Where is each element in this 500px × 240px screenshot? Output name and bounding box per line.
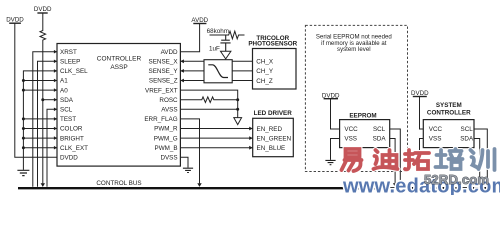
note text (316, 33, 392, 53)
wire XRST (33, 52, 57, 187)
junction TEST/ground rail (22, 117, 25, 120)
svg-text:CONTROLLER: CONTROLLER (97, 56, 142, 63)
svg-text:CH_Y: CH_Y (256, 68, 274, 75)
wire AVDD (180, 24, 199, 52)
svg-text:SCL: SCL (60, 107, 73, 114)
wire SYS VCC (420, 97, 424, 130)
system controller left pin labels (429, 126, 443, 143)
watermark glyph 2 (374, 150, 398, 169)
wire AVSS (180, 108, 237, 110)
system controller right pin labels (460, 126, 474, 143)
dashed option box (305, 25, 407, 171)
wire SCL (47, 109, 57, 187)
LED driver box (253, 118, 294, 156)
controller left pin labels (60, 49, 88, 162)
arrowhead BRIGHT pin (54, 136, 57, 140)
hollow arrow into filter (221, 51, 231, 59)
ground EEPROM (325, 160, 335, 164)
junction AVSS net (236, 108, 239, 111)
svg-text:SENSE_Y: SENSE_Y (149, 68, 179, 75)
arrowhead SYS SCL to bus (485, 183, 489, 187)
svg-text:SDA: SDA (373, 136, 387, 143)
wire EEPROM VCC (331, 99, 340, 129)
wire TEST (23, 118, 57, 120)
wire A1 (23, 80, 57, 82)
svg-text:68kohm: 68kohm (207, 28, 229, 35)
svg-text:ASSP: ASSP (110, 64, 127, 71)
svg-text:DVDD: DVDD (60, 155, 78, 162)
wire SYS SCL (474, 129, 487, 184)
arrowhead TEST pin (54, 117, 57, 121)
svg-text:TEST: TEST (60, 116, 76, 123)
wire CLK_EXT (23, 147, 57, 149)
junction SDA/pull-up (41, 98, 44, 101)
photosensor box (253, 49, 297, 90)
arrowhead COLOR pin (54, 127, 57, 131)
arrowhead CLK_EXT pin (54, 146, 57, 150)
arrowhead SENSE_X input (180, 59, 184, 63)
wire EEPROM SCL (390, 129, 401, 184)
filter curve (208, 65, 228, 78)
watermark glyph 3 (405, 150, 429, 169)
svg-text:BRIGHT: BRIGHT (60, 135, 84, 142)
svg-text:EN_BLUE: EN_BLUE (257, 145, 286, 152)
svg-text:VCC: VCC (429, 126, 443, 133)
wire SYS VSS (420, 139, 424, 160)
wire SENSE_Y (180, 70, 252, 72)
svg-text:AVDD: AVDD (161, 49, 178, 56)
svg-text:1uF: 1uF (209, 45, 220, 52)
wire SYS SDA (474, 139, 480, 184)
hollow arrow AVSS (234, 118, 242, 125)
arrowhead XRST pin (54, 50, 57, 54)
svg-text:SLEEP: SLEEP (60, 59, 80, 66)
svg-text:VCC: VCC (344, 126, 358, 133)
svg-text:PWM_B: PWM_B (155, 145, 178, 152)
svg-text:DVDD: DVDD (411, 90, 429, 97)
svg-text:A0: A0 (60, 87, 68, 94)
EEPROM left pin labels (344, 126, 358, 143)
wire PWM_R (180, 128, 252, 130)
controller right pin labels (144, 49, 178, 162)
svg-text:EEPROM: EEPROM (349, 113, 376, 120)
arrowhead EEPROM SCL to bus (398, 183, 402, 187)
wire SDA (43, 99, 57, 101)
EEPROM right pin labels (373, 126, 387, 143)
wire SENSE_Z (180, 80, 252, 82)
svg-text:SCL: SCL (461, 126, 474, 133)
svg-text:EN_GREEN: EN_GREEN (257, 135, 292, 142)
arrowhead EN_RED input (249, 127, 253, 131)
svg-text:CONTROLLER: CONTROLLER (427, 109, 471, 116)
svg-text:SDA: SDA (60, 97, 74, 104)
control bus (18, 187, 490, 189)
arrowhead A0 pin (54, 88, 57, 92)
svg-text:VSS: VSS (344, 136, 357, 143)
wire A0 (23, 89, 57, 91)
wire SLEEP (38, 61, 58, 187)
wire BRIGHT (23, 137, 57, 139)
svg-text:VREF_EXT: VREF_EXT (145, 87, 178, 94)
junction CLK_EXT/ground rail (22, 146, 25, 149)
svg-text:CONTROL BUS: CONTROL BUS (96, 180, 141, 187)
photosensor pin labels (256, 59, 274, 85)
svg-text:ERR_FLAG: ERR_FLAG (144, 116, 177, 123)
capacitor 1uF (220, 35, 230, 52)
svg-text:XRST: XRST (60, 49, 77, 56)
watermark glyph 1 (342, 149, 362, 171)
svg-text:LED DRIVER: LED DRIVER (254, 110, 293, 117)
resistor pull-up on SDA line (40, 13, 46, 183)
svg-text:SYSTEM: SYSTEM (436, 102, 462, 109)
svg-text:COLOR: COLOR (60, 126, 83, 133)
EEPROM box (340, 120, 390, 148)
filter box (204, 60, 232, 83)
arrowhead SENSE_Z input (180, 79, 184, 83)
svg-text:DVDD: DVDD (322, 92, 340, 99)
wire CLK_SEL + ground rail (23, 71, 57, 170)
svg-text:AVDD: AVDD (191, 17, 208, 24)
svg-text:SCL: SCL (373, 126, 386, 133)
watermark glyph 4 (436, 149, 463, 169)
power DVDD3 bar (324, 98, 338, 100)
arrowhead SENSE_Y input (180, 69, 184, 73)
svg-text:CH_X: CH_X (256, 59, 274, 66)
svg-text:A1: A1 (60, 78, 68, 85)
resistor ROSC (180, 97, 237, 103)
wire EEPROM VSS (331, 139, 340, 160)
svg-text:system level: system level (337, 46, 371, 53)
arrowhead CLK_SEL pin (54, 69, 57, 73)
ground DVSS (183, 168, 193, 172)
svg-text:52RD.com: 52RD.com (424, 172, 489, 187)
svg-text:DVSS: DVSS (160, 155, 177, 162)
IC U1 controller ASSP (57, 44, 180, 167)
junction A0/ground rail (22, 89, 25, 92)
junction ROSC/AVSS net (236, 98, 239, 101)
ground SYS (414, 160, 424, 164)
junction BRIGHT/ground rail (22, 137, 25, 140)
power DVDD1 bar (9, 22, 21, 24)
junction A1/ground rail (22, 79, 25, 82)
power AVDD bar (193, 23, 206, 25)
svg-text:PHOTOSENSOR: PHOTOSENSOR (248, 41, 297, 48)
system controller box (423, 120, 474, 148)
svg-text:SENSE_X: SENSE_X (149, 59, 179, 66)
arrowhead ERR_FLAG to bus (197, 183, 201, 187)
wire SENSE_X (180, 60, 252, 62)
svg-text:PWM_R: PWM_R (154, 126, 178, 133)
svg-text:EN_RED: EN_RED (257, 126, 283, 133)
arrowhead SDA pin (54, 98, 57, 102)
ground left (17, 170, 29, 175)
wire DVSS (180, 157, 188, 167)
svg-text:DVDD: DVDD (6, 17, 24, 24)
junction COLOR/ground rail (22, 127, 25, 130)
arrowhead A1 pin (54, 79, 57, 83)
arrowhead EN_GREEN input (249, 136, 253, 140)
svg-text:CH_Z: CH_Z (256, 78, 273, 85)
watermark glyph 5 (471, 149, 495, 170)
arrowhead SCL pin (54, 108, 57, 112)
arrowhead SDA to bus (41, 183, 45, 187)
arrowhead SLEEP pin (54, 60, 57, 64)
power DVDD4 bar (413, 96, 427, 98)
arrowhead SYS SDA to bus (478, 183, 482, 187)
wire ERR_FLAG (180, 119, 199, 183)
power DVDD2 bar (37, 12, 47, 14)
LED driver pin labels (257, 126, 292, 152)
svg-text:SDA: SDA (460, 136, 474, 143)
svg-text:DVDD: DVDD (34, 6, 52, 13)
resistor 68kohm (210, 31, 245, 39)
wire EEPROM SDA (390, 139, 395, 184)
svg-text:ROSC: ROSC (159, 97, 178, 104)
wire PWM_B (180, 147, 252, 149)
wire COLOR (23, 128, 57, 130)
svg-text:CLK_SEL: CLK_SEL (60, 68, 88, 75)
arrowhead EEPROM SDA to bus (393, 183, 397, 187)
svg-text:PWM_G: PWM_G (154, 135, 178, 142)
wire DVDD1 to DVDD pin (15, 23, 57, 157)
svg-text:SENSE_Z: SENSE_Z (149, 78, 178, 85)
wire VREF_EXT (180, 90, 237, 118)
wire PWM_G (180, 137, 252, 139)
svg-text:VSS: VSS (429, 136, 442, 143)
svg-text:AVSS: AVSS (161, 107, 177, 114)
arrowhead EN_BLUE input (249, 146, 253, 150)
svg-text:CLK_EXT: CLK_EXT (60, 145, 88, 152)
